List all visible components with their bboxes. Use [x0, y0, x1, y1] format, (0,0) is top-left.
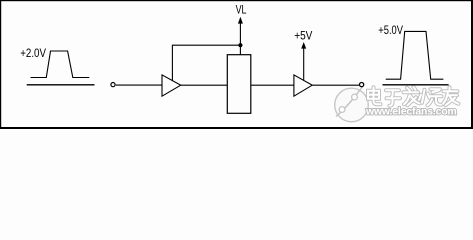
wire +5V supply to buffer 2 top — [303, 48, 305, 81]
wire junction down to block top — [239, 45, 241, 55]
svg-text:VL: VL — [236, 5, 247, 17]
output terminal node — [360, 83, 364, 87]
svg-text:+2.0V: +2.0V — [20, 48, 46, 60]
buffer U2 (triangle) — [294, 75, 312, 96]
buffer U1 (triangle) — [162, 75, 181, 96]
watermark logo node 2 — [352, 94, 358, 100]
wire level shifter to buffer 2 — [251, 84, 294, 86]
wire buffer 2 output to output terminal — [312, 84, 359, 86]
char 烧 outline — [419, 89, 442, 105]
wire input to buffer 1 — [116, 84, 162, 86]
wire VL supply to buffer 1 top — [172, 45, 240, 81]
border frame — [0, 0, 473, 129]
output waveform underline — [383, 84, 449, 86]
level shifter block (rectangle) — [227, 55, 251, 114]
output waveform trapezoid pulse — [386, 31, 444, 79]
svg-text:+5.0V: +5.0V — [378, 25, 403, 37]
watermark chinese text 电子发烧友 (approximation, embossed) — [368, 87, 459, 106]
char 子 outline — [386, 90, 400, 106]
svg-text:+5V: +5V — [294, 31, 312, 43]
schematic black ink — [20, 5, 448, 114]
VL arrow stem — [239, 23, 241, 45]
+5V arrowhead — [301, 42, 306, 49]
watermark logo node 1 — [339, 107, 345, 113]
char 发 outline — [404, 87, 420, 106]
watermark logo diagonal trace — [336, 85, 364, 117]
watermark logo circle — [335, 85, 369, 122]
wire buffer 1 output to level shifter — [181, 84, 228, 86]
char 电 outline — [368, 87, 381, 104]
input terminal node — [111, 83, 115, 87]
input waveform underline — [27, 84, 95, 86]
char 友 outline — [443, 87, 459, 105]
svg-text:www.elecfans.com: www.elecfans.com — [365, 107, 457, 118]
node VL junction dot — [238, 43, 242, 47]
input waveform trapezoid pulse — [31, 51, 90, 78]
VL arrowhead — [238, 17, 243, 24]
watermark url www.elecfans.com — [365, 107, 457, 118]
